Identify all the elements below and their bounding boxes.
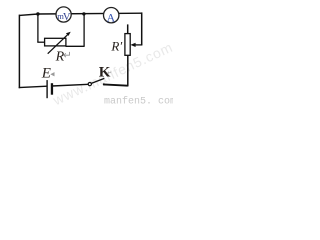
rheostat R diagonal arrow shaft — [48, 35, 68, 54]
wire rheostat R' bottom lead — [127, 55, 129, 86]
wire top rail — [19, 13, 141, 15]
switch K lever — [91, 78, 104, 83]
switch K pivot circle — [88, 83, 91, 86]
wire parallel branch left drop — [37, 14, 39, 42]
resistor R body (rheostat box) — [45, 38, 66, 46]
wire stub to resistor R right — [66, 45, 85, 47]
wire right rail — [141, 12, 143, 45]
battery E short plate — [51, 83, 53, 95]
wire parallel branch right drop — [83, 14, 85, 46]
watermark diagonal www.manfen5.com — [50, 39, 176, 109]
svg-text:R′: R′ — [110, 39, 122, 54]
junction dot right — [82, 12, 85, 15]
wire bottom rail battery segment — [19, 86, 47, 87]
svg-text:↵: ↵ — [63, 51, 72, 62]
switch K right contact dot — [103, 83, 105, 85]
wire rheostat R' top stub — [127, 24, 129, 34]
rheostat R' body — [125, 34, 130, 56]
wire bottom rail right segment — [104, 84, 128, 85]
arrowhead pointing at R' — [130, 43, 135, 47]
svg-text:A: A — [107, 10, 116, 24]
wire left rail — [18, 15, 20, 89]
wire bottom rail to switch — [52, 84, 89, 86]
ammeter A body — [104, 8, 119, 23]
wire stub to resistor R left — [37, 41, 44, 43]
voltmeter mV body — [56, 7, 71, 22]
svg-text:↵: ↵ — [107, 71, 112, 77]
svg-text:manfen5. com: manfen5. com — [104, 96, 173, 107]
rheostat R diagonal arrowhead — [66, 32, 71, 36]
battery E long plate — [46, 80, 47, 98]
wire slider arm of R' — [135, 44, 143, 46]
junction dot left — [36, 12, 39, 15]
svg-text:◂: ◂ — [50, 68, 55, 78]
svg-text:V: V — [63, 12, 71, 23]
